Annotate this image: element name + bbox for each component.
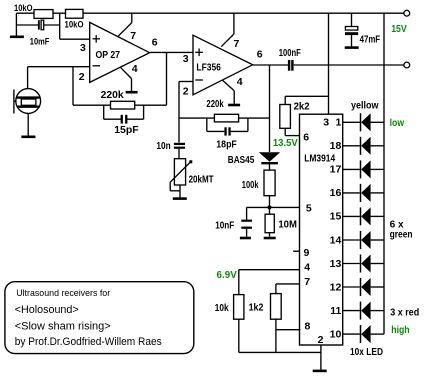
wire pin 5 signal input — [247, 206, 300, 208]
diode BAS45 — [259, 152, 280, 170]
pin 14 label (right) — [330, 234, 342, 246]
label 10n — [156, 141, 170, 152]
terminal +15V — [404, 10, 410, 16]
svg-text:2k2: 2k2 — [294, 102, 310, 113]
pin 9 stub (NC) — [293, 250, 299, 252]
label 13.5V — [273, 138, 298, 149]
ground (LF356 pin 4) — [228, 104, 240, 107]
LED D7 (pin 13) — [343, 255, 384, 273]
pin 9 label — [304, 247, 310, 259]
label 18pF — [216, 139, 237, 150]
LED D9 (pin 11) — [343, 302, 384, 320]
wire LM3914 pin 3 to +15V — [328, 13, 330, 114]
pin 4 label (LF356) — [237, 76, 243, 88]
svg-text:yellow: yellow — [351, 101, 379, 112]
label 47mF — [360, 35, 381, 46]
label low — [390, 118, 405, 129]
wire +15V top rail — [16, 12, 403, 14]
svg-text:220k: 220k — [206, 99, 224, 110]
svg-text:3: 3 — [323, 117, 329, 129]
label 100k — [242, 180, 259, 191]
ground (47mF) — [345, 46, 359, 49]
electret microphone — [14, 67, 41, 114]
svg-text:high: high — [391, 325, 409, 336]
pin 6 label (LF356) — [257, 49, 263, 61]
svg-text:LF356: LF356 — [196, 62, 221, 73]
label yellow — [351, 101, 379, 112]
svg-text:14: 14 — [330, 234, 342, 246]
svg-text:7: 7 — [234, 38, 240, 50]
svg-text:2: 2 — [79, 71, 85, 83]
label 20kMT — [189, 174, 214, 185]
resistor 2k2 — [280, 96, 329, 135]
svg-text:15: 15 — [330, 211, 342, 223]
pin 3 label (OP27) — [80, 42, 86, 54]
svg-text:10x LED: 10x LED — [350, 347, 383, 358]
wire bottom rail — [239, 351, 321, 353]
svg-text:10kO: 10kO — [65, 20, 84, 31]
wire pin 8 — [276, 329, 301, 331]
resistor R 10kO (from +15V) — [66, 9, 84, 18]
resistor 100k (detector) — [264, 170, 275, 196]
svg-text:18pF: 18pF — [216, 139, 237, 150]
terminal output — [404, 62, 410, 68]
svg-text:9: 9 — [304, 247, 310, 259]
pin 4 label — [304, 261, 310, 273]
pin 12 label (right) — [330, 281, 342, 293]
wire pin 2 to ground — [320, 345, 322, 370]
label 3 x red — [390, 307, 419, 318]
ground (microphone) — [21, 113, 35, 136]
svg-text:11: 11 — [330, 305, 341, 317]
pin 10 label (right) — [330, 328, 342, 340]
wire LF356 pin 4 stub — [222, 80, 234, 104]
svg-text:7: 7 — [304, 276, 310, 288]
resistor 10k (ref divider) — [234, 295, 244, 353]
svg-text:13: 13 — [330, 258, 342, 270]
pin 2 label (LF356) — [183, 86, 189, 98]
svg-text:220k: 220k — [101, 89, 124, 101]
title box — [5, 282, 194, 354]
wire OP27 feedback branch down — [73, 52, 167, 105]
op-amp U1 OP 27 — [90, 22, 150, 82]
node A (bias node to OP27 +) — [60, 13, 90, 39]
label 220k (second) — [206, 99, 224, 110]
ground (OP27 pin 4) — [126, 91, 138, 94]
pin 3 label — [323, 117, 329, 129]
resistor 1k2 (ref divider) — [271, 294, 282, 353]
label BAS45 — [228, 155, 255, 166]
LED D3 (pin 17) — [343, 160, 384, 178]
svg-text:Ultrasound receivers for: Ultrasound receivers for — [16, 288, 110, 298]
wire detector branch down — [269, 65, 271, 152]
svg-text:green: green — [390, 229, 413, 240]
LED D5 (pin 15) — [343, 207, 384, 225]
pin 2 label (OP27) — [79, 71, 85, 83]
svg-text:6: 6 — [303, 132, 309, 144]
pin 7 label (OP27) — [130, 30, 136, 42]
pin 13 label (right) — [330, 258, 342, 270]
svg-text:100k: 100k — [242, 180, 259, 191]
svg-text:47mF: 47mF — [360, 35, 381, 46]
svg-text:2: 2 — [183, 86, 189, 98]
wire output line from LF356 to output terminal — [253, 64, 404, 66]
wire pin 7 to 1k2 — [276, 284, 300, 294]
label 6.9V — [217, 270, 238, 281]
capacitor 10nF (detector hold) — [241, 207, 252, 236]
ground (20kMT) — [173, 197, 187, 200]
pin 6 label (OP27) — [152, 37, 158, 49]
capacitor 10mF (bias decoupling) — [16, 20, 59, 30]
svg-text:6: 6 — [257, 49, 263, 61]
label 10M — [278, 220, 297, 231]
wire OP27 pin 4 stub — [121, 68, 132, 91]
svg-text:OP 27: OP 27 — [96, 50, 121, 61]
label 10mF — [30, 36, 50, 47]
svg-text:1k2: 1k2 — [249, 303, 264, 314]
LED D2 (pin 18) — [343, 137, 384, 155]
svg-text:10nF: 10nF — [215, 220, 234, 231]
svg-text:10n: 10n — [156, 141, 170, 152]
pin 1 label (right) — [335, 117, 341, 129]
pin 15 label (right) — [330, 211, 342, 223]
pin 8 label — [305, 321, 311, 333]
pin 11 label (right) — [330, 305, 341, 317]
node (peak detector) junction dot — [267, 205, 271, 209]
svg-text:low: low — [390, 118, 405, 129]
label 15V — [391, 23, 407, 35]
svg-text:15V: 15V — [391, 23, 407, 35]
label 10kO — [14, 3, 33, 14]
label 10nF — [215, 220, 234, 231]
svg-text:<Holosound>: <Holosound> — [15, 304, 79, 316]
trimmer 20kMT — [170, 159, 192, 198]
svg-text:7: 7 — [130, 30, 136, 42]
pin 16 label (right) — [330, 187, 342, 199]
svg-text:4: 4 — [304, 261, 310, 273]
resistor 10M (bleed) — [265, 214, 274, 236]
svg-text:1: 1 — [335, 117, 341, 129]
svg-text:8: 8 — [305, 321, 311, 333]
LED D4 (pin 16) — [343, 184, 384, 202]
ground (bias divider) — [10, 13, 24, 37]
label green — [390, 229, 413, 240]
ground (10M) — [264, 237, 276, 240]
svg-text:<Slow sham rising>: <Slow sham rising> — [15, 320, 111, 332]
svg-text:16: 16 — [330, 187, 342, 199]
pin 3 label (LF356) — [183, 53, 189, 65]
LED D6 (pin 14) — [343, 231, 384, 249]
ground (10nF) — [240, 237, 251, 240]
pin 6 label — [303, 132, 309, 144]
wire OP27 feedback — [73, 104, 167, 106]
wire LED anode rail — [383, 13, 385, 334]
svg-text:10: 10 — [330, 328, 342, 340]
capacitor 18pF (parallel feedback) — [207, 118, 248, 136]
svg-text:17: 17 — [330, 164, 342, 176]
ground (LM3914 pin 2) — [313, 370, 327, 373]
capacitor 100nF (output coupling) — [288, 60, 294, 71]
label 220k — [101, 89, 124, 101]
svg-text:3 x red: 3 x red — [390, 307, 419, 318]
capacitor 10n (gain set) — [174, 143, 185, 159]
svg-text:3: 3 — [80, 42, 86, 54]
label 10x LED — [350, 347, 383, 358]
label high — [391, 325, 409, 336]
IC LM3914 — [300, 114, 343, 345]
label 15pF — [114, 124, 139, 136]
svg-text:4: 4 — [237, 76, 243, 88]
wire mic to OP27 inverting input — [28, 66, 90, 68]
wire LF356 feedback — [179, 117, 270, 119]
svg-text:10kO: 10kO — [14, 3, 33, 14]
capacitor 15pF (parallel feedback) — [104, 105, 144, 123]
pin 5 label — [306, 203, 312, 215]
capacitor 47mF (supply) — [345, 13, 358, 46]
svg-text:13.5V: 13.5V — [273, 138, 298, 149]
wire LF356 pin 7 to +15V — [221, 13, 234, 47]
op-amp U2 LF356 — [193, 35, 253, 95]
svg-text:BAS45: BAS45 — [228, 155, 255, 166]
resistor R 10kO (bias to ground) — [34, 10, 53, 19]
svg-text:2: 2 — [318, 334, 324, 346]
svg-text:20kMT: 20kMT — [189, 174, 214, 185]
LED D1 (pin 1) — [343, 113, 384, 131]
resistor 220k (OP27 feedback) — [111, 101, 135, 109]
pin 7 label — [304, 276, 310, 288]
svg-text:4: 4 — [132, 63, 138, 75]
svg-text:15pF: 15pF — [114, 124, 139, 136]
svg-text:5: 5 — [306, 203, 312, 215]
wire LF356 inverting input branch — [179, 82, 193, 143]
pin 17 label (right) — [330, 164, 342, 176]
pin 7 label (LF356) — [234, 38, 240, 50]
svg-text:12: 12 — [330, 281, 342, 293]
svg-text:10M: 10M — [278, 220, 297, 231]
LED D10 (pin 10) — [343, 325, 384, 343]
label 1k2 — [249, 303, 264, 314]
pin 2 label — [318, 334, 324, 346]
label 2k2 — [294, 102, 310, 113]
svg-text:6.9V: 6.9V — [217, 270, 238, 281]
label 10kO (second) — [65, 20, 84, 31]
svg-text:3: 3 — [183, 53, 189, 65]
svg-text:by Prof.Dr.Godfried-Willem Rae: by Prof.Dr.Godfried-Willem Raes — [15, 336, 162, 348]
svg-text:18: 18 — [330, 140, 342, 152]
wire OP27 output to LF356 +input — [150, 51, 193, 53]
LED D8 (pin 12) — [343, 278, 384, 296]
svg-text:100nF: 100nF — [279, 48, 301, 59]
wire OP27 pin 7 to +15V — [118, 13, 132, 36]
label 10k — [215, 303, 229, 314]
label 100nF — [279, 48, 301, 59]
pin 18 label (right) — [330, 140, 342, 152]
svg-text:10mF: 10mF — [30, 36, 50, 47]
pin 4 label (OP27) — [132, 63, 138, 75]
wire 100k to node — [269, 196, 271, 215]
label 6 x — [390, 220, 404, 231]
resistor 220k (LF356 feedback) — [214, 114, 238, 122]
svg-text:10k: 10k — [215, 303, 229, 314]
svg-text:6: 6 — [152, 37, 158, 49]
wire pin 4 to divider — [239, 270, 300, 295]
